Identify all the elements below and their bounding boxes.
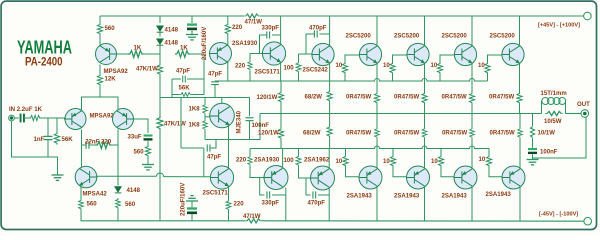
ground feedback — [142, 165, 154, 170]
wire emitter no2 — [424, 63, 426, 92]
wire emitter no3 — [471, 63, 473, 92]
svg-text:[-45V] - [-100V]: [-45V] - [-100V] — [539, 212, 578, 218]
transistor 2SC5200 no4 — [502, 43, 524, 65]
zobel resistor 10/1W — [532, 114, 534, 126]
transistor 2SA1930 upper — [210, 43, 232, 65]
capacitor 100nF mid — [249, 98, 251, 117]
wire 2SA1930 collector down to bus — [227, 62, 229, 81]
svg-text:2SC5200: 2SC5200 — [394, 34, 420, 40]
wire diff left collector down — [81, 130, 83, 167]
svg-text:MPSA92: MPSA92 — [104, 69, 129, 75]
resistor 47/1W bottom rail — [245, 219, 262, 223]
wire collector no1 down — [376, 187, 378, 221]
bottom rail -V left part — [81, 220, 245, 222]
wire — [47, 140, 49, 157]
svg-text:1K8: 1K8 — [189, 107, 201, 113]
svg-text:47K/1W: 47K/1W — [136, 67, 158, 73]
resistor 560 MPSA42 — [79, 199, 84, 210]
resistor 0R47/5W upper 2 — [422, 92, 427, 104]
diode 4148 vas — [115, 187, 122, 193]
wire MJE340 emitter — [228, 125, 230, 140]
wire diode chain top — [159, 16, 161, 23]
resistor 560 tail — [97, 23, 102, 35]
wire diff tail — [82, 97, 119, 110]
resistor 100 lower — [298, 149, 300, 156]
svg-text:2SA1943: 2SA1943 — [486, 192, 512, 198]
resistor 0R47/5W upper 3 — [469, 92, 474, 104]
resistor 10 upper 3 — [439, 74, 441, 81]
wire x181 drop — [180, 98, 182, 149]
svg-text:47pF: 47pF — [176, 69, 190, 75]
svg-text:220: 220 — [235, 64, 246, 70]
resistor 10 upper 1 — [344, 74, 346, 81]
wire tail base — [117, 53, 129, 55]
svg-text:4148: 4148 — [165, 28, 179, 34]
wire diode chain down — [159, 46, 161, 64]
svg-text:YAMAHA: YAMAHA — [17, 37, 72, 58]
wire MPSA42 emitter — [80, 186, 82, 199]
svg-text:2SC5242: 2SC5242 — [303, 68, 329, 74]
resistor 10 lower 4 — [488, 149, 490, 156]
svg-text:56K: 56K — [62, 137, 74, 143]
capacitor 220uF/160V upper — [191, 16, 193, 23]
capacitor 2.2uF — [20, 114, 25, 123]
resistor 0R47/5W lower 3 — [471, 114, 473, 128]
svg-text:330pF: 330pF — [262, 201, 280, 207]
resistor 0R47/5W lower 2 — [424, 114, 426, 128]
svg-text:2SA1930: 2SA1930 — [254, 158, 280, 164]
svg-text:2SC5200: 2SC5200 — [442, 34, 468, 40]
svg-text:2SA1930: 2SA1930 — [232, 41, 258, 47]
resistor 220 2SC5171 upper base — [249, 54, 251, 61]
wire 2SC5171 upper base — [250, 53, 262, 55]
svg-text:10: 10 — [383, 159, 390, 165]
svg-text:10: 10 — [431, 159, 438, 165]
wire MJE340 base — [205, 116, 210, 118]
capacitor 47pF box — [183, 76, 186, 83]
wire — [14, 117, 19, 119]
wire 2SA1962 emitter up to bus — [328, 149, 330, 170]
svg-text:10: 10 — [336, 159, 343, 165]
wire emitter up — [99, 35, 101, 45]
transistor 2SA1943 no4 — [502, 166, 525, 189]
svg-text:0R47/5W: 0R47/5W — [489, 95, 514, 101]
svg-text:220: 220 — [234, 202, 245, 208]
wire 2SA1962 collector to bottom rail — [328, 188, 330, 221]
svg-text:220: 220 — [101, 139, 112, 145]
terminal -V — [584, 217, 592, 225]
transistor MPSA92 diff right — [113, 109, 134, 130]
wire 2SC5242 collector to rail — [329, 16, 331, 46]
drive bus upper — [215, 79, 488, 82]
wire collector no2 — [424, 16, 426, 46]
svg-text:0R47/5W: 0R47/5W — [490, 131, 515, 137]
svg-text:470pF: 470pF — [308, 201, 326, 207]
svg-text:4148: 4148 — [165, 41, 179, 47]
wire 2SC5242 emitter to bus — [329, 63, 331, 81]
resistor 10 lower 3 — [440, 149, 442, 156]
svg-text:0R47/5W: 0R47/5W — [442, 95, 467, 101]
capacitor 470pF upper — [320, 33, 330, 35]
transistor 2SA1930 lower — [264, 166, 288, 190]
svg-text:IN 2.2uF 1K: IN 2.2uF 1K — [9, 107, 43, 113]
resistor 1K8 upper — [204, 98, 206, 104]
svg-text:0R47/5W: 0R47/5W — [346, 95, 371, 101]
capacitor 470pF lower — [306, 178, 311, 195]
wire input ground return — [12, 121, 58, 175]
node wire collector MJE340 — [160, 97, 250, 99]
wire to bottom rail — [117, 209, 119, 221]
wire collector no4 — [519, 16, 521, 46]
resistor 56K input — [56, 118, 58, 132]
wire collector no3 — [471, 16, 473, 46]
resistor 1K8 lower — [204, 114, 206, 119]
svg-text:68/2W: 68/2W — [305, 95, 323, 101]
resistor 47K/1W upper — [157, 64, 162, 76]
svg-text:MPSA42: MPSA42 — [83, 192, 108, 198]
resistor 1K left — [128, 51, 144, 58]
wire box left — [172, 78, 181, 80]
svg-text:33uF: 33uF — [128, 135, 142, 141]
resistor 0R47/5W lower 4 — [519, 114, 521, 128]
svg-text:2SA1943: 2SA1943 — [347, 194, 373, 200]
resistor 1K right — [175, 51, 190, 58]
wire 2SA1930 lower collector to bottom rail — [285, 188, 287, 222]
ground input — [52, 175, 64, 180]
capacitor 220uF/160V lower — [191, 214, 193, 221]
wire 2SA1930 lower emitter up to bus — [282, 149, 284, 169]
capacitor 1nF — [44, 136, 53, 139]
wire emitter no2 up — [424, 138, 426, 169]
svg-text:56K: 56K — [179, 86, 191, 92]
top rail +V — [100, 15, 244, 17]
wire to bottom rail — [80, 210, 82, 221]
resistor 68/2W upper — [329, 81, 331, 90]
wire emitter no4 up — [519, 138, 521, 169]
resistor 120/1W lower chain — [280, 114, 282, 128]
transistor 2SC5200 no3 — [454, 43, 476, 65]
transistor 2SC5242 — [312, 43, 334, 65]
svg-text:0R47/5W: 0R47/5W — [346, 131, 371, 137]
svg-text:10: 10 — [336, 63, 343, 69]
transistor 2SA1943 no3 — [454, 166, 477, 189]
wire — [89, 144, 96, 146]
wire input to diff base — [41, 117, 66, 119]
svg-text:2SA1943: 2SA1943 — [442, 194, 468, 200]
capacitor 47pF lowmid — [181, 147, 204, 149]
svg-text:10: 10 — [383, 63, 390, 69]
svg-text:1nF: 1nF — [34, 137, 45, 143]
wire bottom rail right part — [262, 220, 584, 222]
svg-text:47K/1W: 47K/1W — [164, 122, 186, 128]
svg-text:120/1W: 120/1W — [257, 95, 278, 101]
capacitor 330pF lower — [260, 178, 265, 196]
wire emitter no1 — [376, 63, 378, 92]
wire — [147, 141, 149, 145]
svg-text:470pF: 470pF — [309, 26, 327, 32]
resistor 560 vas diode — [116, 198, 121, 209]
resistor 220 comp — [96, 142, 112, 149]
wire MPSA42 base — [97, 175, 118, 177]
wire 2SC5171 upper collector to rail — [280, 16, 282, 45]
svg-text:2SC5171: 2SC5171 — [203, 191, 229, 197]
svg-text:100nF: 100nF — [540, 150, 558, 156]
inductor 15T/1mm — [541, 101, 543, 114]
capacitor 33uF — [144, 134, 153, 140]
svg-text:MJE340: MJE340 — [237, 110, 243, 133]
wire box left join — [172, 79, 180, 95]
svg-text:10/5W: 10/5W — [544, 119, 562, 125]
wire collector no2 down — [424, 187, 426, 221]
svg-text:10: 10 — [478, 63, 485, 69]
terminal +V — [584, 12, 592, 20]
svg-text:0R47/5W: 0R47/5W — [442, 131, 467, 137]
svg-text:[+45V] - [+100V]: [+45V] - [+100V] — [538, 23, 580, 29]
wire emitter no1 up — [376, 138, 378, 169]
svg-text:47pF: 47pF — [208, 72, 222, 78]
wire to A1930 base node — [190, 54, 204, 79]
svg-text:1K: 1K — [134, 46, 142, 52]
svg-text:10/1W: 10/1W — [538, 131, 556, 137]
transistor MPSA42 — [75, 166, 97, 188]
wire tail up — [99, 86, 101, 97]
wire 47K down to bottom rail with hop — [159, 130, 161, 221]
svg-text:1K8: 1K8 — [189, 123, 201, 129]
svg-text:47/1W: 47/1W — [243, 214, 261, 220]
svg-text:100: 100 — [284, 158, 295, 164]
resistor 47K/1W — [157, 116, 163, 130]
svg-text:0R47/5W: 0R47/5W — [394, 131, 419, 137]
wire out return — [533, 117, 587, 158]
svg-text:560: 560 — [87, 202, 98, 208]
wire 2SC5242 base — [299, 53, 312, 55]
svg-text:100: 100 — [284, 66, 295, 72]
resistor 12K — [97, 74, 102, 86]
svg-text:2SA1962: 2SA1962 — [304, 158, 330, 164]
svg-text:2SC5200: 2SC5200 — [490, 34, 516, 40]
svg-text:47/1W: 47/1W — [245, 20, 263, 26]
zobel capacitor 100nF — [532, 139, 534, 148]
resistor 100 upper — [298, 54, 300, 62]
svg-text:OUT: OUT — [577, 102, 590, 108]
diode 4148 upper1 — [157, 26, 164, 32]
svg-text:560: 560 — [105, 26, 116, 32]
terminal IN — [9, 115, 15, 121]
resistor 10 lower 2 — [392, 149, 394, 156]
resistor 220 2SA1930 lower base — [249, 149, 251, 156]
node wire emitter — [205, 114, 260, 140]
wire to ground — [147, 157, 149, 165]
wire collector no3 down — [471, 187, 473, 221]
wire — [99, 65, 101, 75]
transistor 2SC5171 upper — [262, 42, 285, 65]
wire emitter no4 — [519, 63, 521, 92]
wire emitter 2SC5171 lower — [228, 187, 230, 200]
resistor 120/1W upper chain — [280, 81, 282, 91]
wire 1nF drop — [47, 118, 49, 136]
terminal OUT — [581, 110, 589, 118]
svg-text:560: 560 — [134, 150, 145, 156]
svg-text:1K: 1K — [180, 46, 188, 52]
svg-text:2SC5200: 2SC5200 — [346, 34, 372, 40]
wire 2SA1930 emitter up — [227, 35, 229, 45]
svg-text:PA-2400: PA-2400 — [25, 57, 63, 69]
svg-text:4148: 4148 — [127, 188, 141, 194]
resistor 10/5W parallel — [545, 111, 563, 115]
svg-text:10: 10 — [431, 63, 438, 69]
svg-text:120/1W: 120/1W — [258, 131, 279, 137]
feedback 33uF chain : wire from diff right base — [134, 119, 149, 133]
svg-text:MPSA92: MPSA92 — [90, 114, 115, 120]
svg-text:47pF: 47pF — [207, 155, 221, 161]
wire diff right collector column — [117, 130, 119, 186]
wire — [144, 53, 160, 55]
svg-text:560: 560 — [125, 202, 136, 208]
ground zobel — [527, 160, 539, 165]
svg-text:220uF/160V: 220uF/160V — [202, 27, 208, 60]
wire box bottom stub — [171, 95, 173, 98]
svg-text:330pF: 330pF — [262, 26, 280, 32]
svg-text:2SA1943: 2SA1943 — [394, 194, 420, 200]
capacitor 47pF mid — [214, 80, 216, 82]
capacitor 22nF — [86, 141, 89, 149]
resistor 220 2SC5171 lower emitter — [226, 200, 231, 211]
wire 2SC5171 upper emitter to bus — [280, 62, 282, 81]
resistor 1K input — [29, 115, 41, 120]
transistor 2SC5200 no2 — [407, 43, 429, 65]
capacitor 330pF upper — [272, 34, 281, 36]
svg-text:2SC5171: 2SC5171 — [255, 70, 281, 76]
svg-text:15T/1mm: 15T/1mm — [541, 91, 567, 97]
svg-text:220: 220 — [236, 158, 247, 164]
transistor MPSA92 tail source — [96, 44, 117, 65]
resistor 68/2W lower — [329, 114, 331, 126]
wire comp to right column — [112, 144, 119, 146]
drive bus lower — [250, 146, 489, 149]
node wire 22nF left — [82, 144, 87, 146]
transistor 2SA1943 no2 — [407, 166, 430, 189]
wire to top rail — [99, 16, 101, 23]
svg-text:68/2W: 68/2W — [303, 131, 321, 137]
resistor 0R47/5W lower 1 — [376, 114, 378, 128]
svg-text:220uF/160V: 220uF/160V — [181, 183, 187, 216]
transistor MPSA92 diff left — [65, 109, 86, 130]
svg-text:220: 220 — [232, 25, 243, 31]
transistor 2SA1962 — [311, 166, 335, 190]
wire 2SC5171 lower collector — [228, 140, 230, 168]
resistor 10 upper 4 — [487, 74, 489, 81]
transistor MJE340 — [221, 98, 223, 104]
wire collector no1 — [376, 16, 378, 46]
transistor 2SC5171 lower — [210, 166, 233, 189]
svg-text:0R47/5W: 0R47/5W — [394, 95, 419, 101]
transistor 2SC5200 no1 — [359, 43, 381, 65]
svg-text:10: 10 — [479, 157, 486, 163]
resistor 220 2SA1930 emitter — [225, 23, 230, 35]
wire box — [187, 79, 204, 95]
transistor 2SA1943 no1 — [359, 166, 382, 189]
wire top rail right part — [260, 15, 584, 17]
resistor 56K box — [180, 93, 192, 97]
wire — [24, 117, 29, 119]
wire down to 2SC5171 lower base — [203, 148, 205, 177]
resistor 560 feedback — [145, 145, 150, 157]
resistor 10 lower 1 — [345, 149, 347, 156]
resistor 0R47/5W upper 4 — [517, 92, 522, 104]
resistor 0R47/5W upper 1 — [374, 92, 379, 104]
svg-text:12K: 12K — [105, 77, 117, 83]
wire emitter no3 up — [471, 138, 473, 169]
resistor 10 upper 2 — [392, 74, 394, 81]
wire collector no4 down — [519, 187, 521, 221]
wire VAS base line to 2SC5171 lower with hop — [118, 175, 211, 178]
resistor 47/1W top rail — [244, 14, 260, 18]
diode 4148 upper2 — [157, 39, 164, 45]
output rail — [260, 113, 542, 115]
svg-text:100nF: 100nF — [252, 123, 270, 129]
